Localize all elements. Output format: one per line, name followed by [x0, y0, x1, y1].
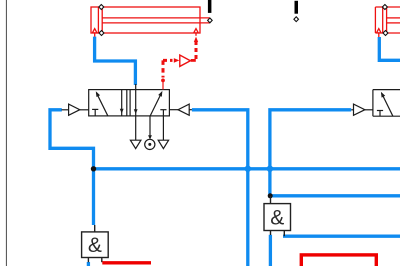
AND gate U1 [82, 225, 109, 262]
wire AND2 output right bus [283, 235, 400, 238]
piston position marker diamonds A1 [99, 5, 104, 36]
cylinder A2 [375, 7, 400, 37]
wire cyl A1 to valve V1 port 4 [95, 37, 136, 85]
V1 supply port 1 source [145, 116, 155, 150]
frame [5, 0, 7, 266]
V1 right box diagonal flow [150, 91, 162, 116]
junction node B [243, 164, 252, 173]
valve V1 5/2 body [89, 90, 170, 116]
piston position marker diamonds A2 [382, 5, 388, 36]
wire AND2 output left down [269, 235, 272, 266]
red component box bottom right [301, 255, 376, 266]
red line AND1 output [102, 261, 151, 264]
AND gate U2 [264, 196, 291, 236]
V1 left box diagonal flow [96, 91, 108, 116]
V1 flow path arrow down left [120, 90, 124, 116]
V1 flow path arrow down right / port 4 line [134, 84, 138, 116]
wire main bus [94, 167, 400, 170]
junction dot node A [91, 166, 96, 171]
wire branch at AND2 input [271, 194, 400, 197]
svg-text:&: & [88, 234, 102, 257]
signal dot above valve [161, 79, 165, 83]
V1 exhaust port 3 [158, 116, 168, 149]
cylinder A1 [91, 7, 210, 37]
wire cyl A2 to right edge [379, 37, 400, 60]
ruler diamond 2 [294, 17, 299, 22]
signal wire into amplifier dashed [163, 60, 173, 77]
wire pilot left of V1 down to AND1 [50, 110, 94, 225]
V1 right pilot [169, 104, 192, 115]
valve V2 body (cut off) [373, 90, 400, 117]
junction node C [265, 164, 274, 173]
V2 diagonal flow [381, 92, 393, 116]
amplifier U3 [180, 55, 191, 66]
V1 right box blocked port T [160, 110, 166, 116]
signal wire cyl A1 rod port dashed [191, 41, 196, 60]
V2 blocked port T [377, 111, 383, 117]
V1 left box blocked port T [92, 109, 98, 116]
ruler tick mark 2 [295, 1, 299, 14]
rod end marker A1 [208, 18, 213, 23]
junction dot node D [268, 193, 273, 198]
wire AND1 output left down [87, 262, 90, 266]
wire V1 right pilot down [192, 110, 248, 266]
wire to valve V2 pilot and down to AND2 [270, 110, 351, 196]
signal arrow into amplifier [174, 58, 180, 63]
V1 left pilot [62, 104, 89, 115]
ruler tick mark 1 [208, 0, 212, 13]
svg-text:&: & [270, 207, 284, 230]
signal arrow up at cyl port [194, 37, 198, 42]
V2 left pilot [351, 104, 373, 115]
V1 exhaust port 5 [130, 116, 141, 149]
signal thin link to V1 port 2 [162, 82, 164, 90]
